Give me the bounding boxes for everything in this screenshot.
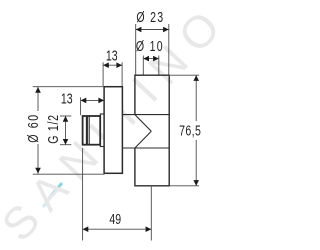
svg-text:Ø 23: Ø 23 [136, 9, 164, 25]
dimension 13 rosette [103, 62, 122, 86]
watermark swoosh [43, 183, 62, 207]
dimension O23 [136, 24, 169, 75]
svg-text:49: 49 [109, 211, 121, 227]
cone chevron [135, 115, 151, 148]
thread pipe G1/2 [83, 116, 101, 145]
svg-text:Ø 60: Ø 60 [26, 113, 42, 142]
svg-text:G 1/2: G 1/2 [45, 114, 61, 144]
dimension 49 [83, 148, 152, 241]
svg-text:13: 13 [61, 91, 73, 107]
valve body [135, 75, 169, 186]
rosette [104, 87, 122, 174]
dimension O10 [143, 56, 159, 75]
svg-text:Ø 10: Ø 10 [136, 39, 164, 55]
washer [100, 114, 104, 147]
dimension G 1/2 [60, 116, 71, 145]
dimension 13 thread [81, 97, 105, 115]
svg-text:76,5: 76,5 [179, 123, 201, 139]
dimension O60 [33, 87, 105, 175]
svg-text:13: 13 [106, 48, 118, 64]
body section lines [122, 115, 169, 148]
dimension 76,5 [169, 75, 199, 186]
